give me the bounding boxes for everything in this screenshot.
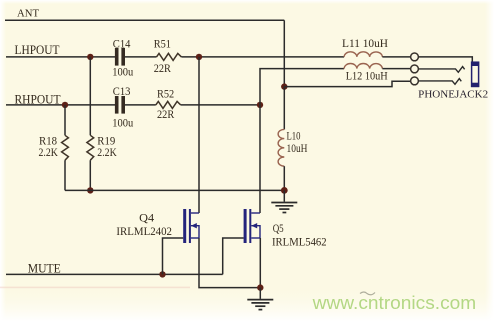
svg-text:R19: R19 (97, 136, 115, 148)
wire Q5 drain vertical (259, 105, 261, 213)
phonejack pin 2 circle (411, 65, 419, 73)
svg-text:ANT: ANT (17, 8, 40, 19)
junction R19 bottom (87, 187, 93, 193)
svg-text:www.cntronics.com: www.cntronics.com (312, 293, 477, 313)
wire R51 to L11 (181, 56, 344, 58)
svg-text:10uH: 10uH (287, 143, 308, 155)
wire L12 to pin2 (382, 68, 410, 70)
resistor R18 (62, 135, 69, 160)
wire R52 to node (181, 104, 260, 106)
wire Q5 source down (259, 238, 261, 288)
inductor L12 (344, 64, 382, 69)
junction R52 output / Q5 drain (257, 102, 263, 108)
capacitor C13 (115, 96, 125, 114)
wire C14 to R51 (125, 56, 157, 58)
svg-text:L11 10uH: L11 10uH (342, 38, 388, 50)
junction source node (257, 284, 263, 290)
wire pin1 to jack body (419, 57, 473, 62)
resistor R19 (87, 135, 94, 160)
capacitor C14 (115, 48, 125, 66)
wire C13 to R52 (125, 104, 156, 106)
wire R18 top (64, 105, 66, 135)
wire R18 bottom (64, 160, 66, 190)
svg-text:R18: R18 (39, 136, 57, 148)
wire MUTE (6, 273, 223, 275)
svg-text:22R: 22R (157, 109, 174, 121)
wire LHPOUT to C14 (6, 56, 115, 58)
junction R19 top on LHPOUT (87, 54, 93, 60)
svg-text:R52: R52 (157, 89, 174, 101)
svg-text:MUTE: MUTE (28, 262, 61, 276)
wire Q5 drain node up to L12 row (260, 69, 344, 105)
wire Q4 gate (163, 238, 184, 274)
junction MUTE / Q4 gate (159, 271, 165, 277)
junction ANT / sleeve row (281, 83, 287, 89)
phonejack J? switch contact pin2 (419, 67, 465, 73)
svg-text:Q5: Q5 (273, 223, 284, 235)
resistor R51 (157, 53, 182, 60)
svg-text:IRLML2402: IRLML2402 (116, 226, 172, 238)
svg-text:C14: C14 (113, 38, 131, 50)
transistor Q5 (244, 209, 260, 243)
svg-text:R51: R51 (154, 39, 171, 51)
svg-text:PHONEJACK2: PHONEJACK2 (418, 89, 488, 101)
wire L10 to ground (283, 166, 285, 190)
ground symbol at L10 (271, 203, 297, 213)
wire RHPOUT to C13 (6, 104, 115, 106)
wire ANT vertical to sleeve node (283, 20, 285, 86)
svg-text:100u: 100u (112, 118, 133, 130)
wire ANT horizontal (5, 19, 284, 21)
svg-text:IRLML5462: IRLML5462 (272, 236, 327, 248)
wire R19 bottom (89, 160, 91, 190)
wire Q4 drain vertical (198, 57, 200, 213)
junction R51 output / Q4 drain (196, 54, 202, 60)
junction L10 / bottom rail / ground (281, 187, 288, 194)
svg-text:Q4: Q4 (139, 213, 154, 225)
inductor L10 (278, 129, 284, 166)
wire L11 to pin1 (382, 56, 410, 58)
wire bottom rail R18 to L10 ground node (65, 189, 284, 191)
resistor R52 (156, 101, 181, 108)
phonejack body (471, 62, 479, 88)
svg-text:22R: 22R (154, 63, 171, 75)
inductor L11 (344, 52, 382, 57)
wire R19 top (89, 57, 91, 135)
svg-text:C13: C13 (113, 86, 131, 98)
phonejack J? switch contact pin3 (419, 79, 462, 85)
svg-text:LHPOUT: LHPOUT (15, 43, 60, 57)
svg-text:L12 10uH: L12 10uH (346, 71, 388, 83)
ground symbol at sources (247, 300, 273, 310)
junction R18 top on RHPOUT (62, 102, 68, 108)
wire ANT node down to L10 (283, 87, 285, 130)
svg-text:100u: 100u (112, 67, 133, 79)
wire sleeve row to pin3 (284, 81, 410, 86)
svg-text:L10: L10 (287, 130, 301, 142)
wire source node ground stem (259, 288, 261, 299)
transistor Q4 (183, 209, 199, 243)
svg-text:2.2K: 2.2K (97, 147, 117, 159)
wire ground stem (283, 190, 285, 201)
wire Q5 gate (223, 238, 244, 274)
wire Q4 source to common source node (199, 238, 260, 288)
phonejack pin 1 circle (411, 53, 419, 61)
svg-text:2.2K: 2.2K (39, 147, 59, 159)
phonejack pin 3 circle (411, 77, 419, 85)
